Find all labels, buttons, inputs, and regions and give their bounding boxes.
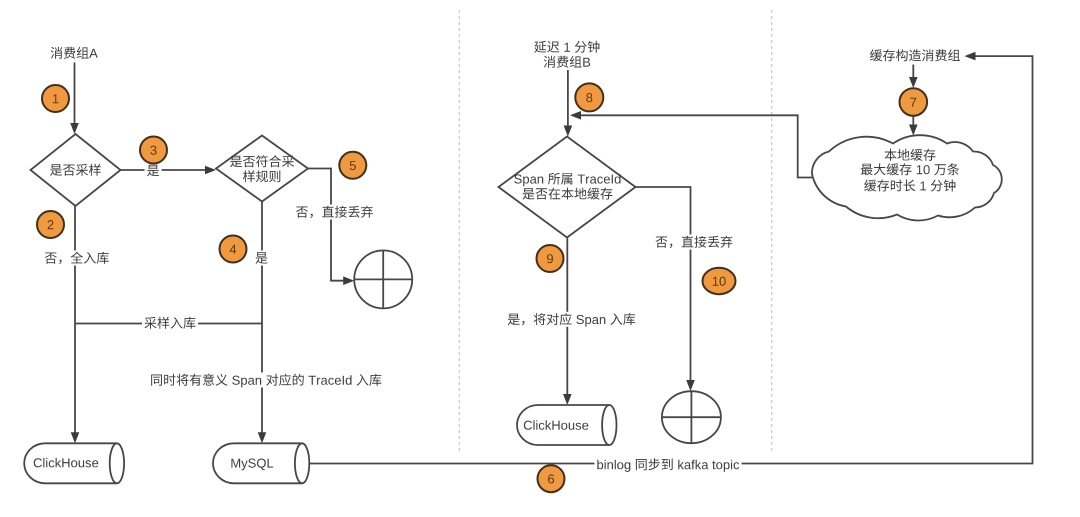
terminator discard circle-plus left — [354, 250, 412, 308]
wire 消费组A to 是否采样 — [70, 63, 79, 135]
database cylinder ClickHouse (middle) — [517, 405, 617, 445]
badge circle 8 — [575, 83, 603, 111]
label 延迟 1 分钟 / 消费组B — [534, 41, 599, 68]
badge circle 1 — [42, 85, 69, 112]
badge circle 10 — [703, 268, 736, 294]
label 是 (first branch) — [145, 163, 162, 178]
label 同时将有意义 Span 对应的 TraceId 入库 — [148, 373, 384, 388]
wire Span diamond to discard terminator (否 branch) — [636, 187, 695, 391]
label 是 (second branch) — [253, 251, 270, 266]
badge circle 9 — [537, 245, 564, 272]
wire Span diamond to ClickHouse (是 branch) — [563, 238, 572, 406]
wire cloud 本地缓存 to Span diamond input — [570, 111, 812, 178]
wire 消费组B to Span diamond — [564, 70, 573, 137]
label 否，直接丢弃 (left) — [294, 205, 376, 220]
wire junction 采样入库 horizontal — [75, 323, 262, 325]
wire 是否采样 to ClickHouse (否 branch) — [71, 206, 80, 443]
label 否，直接丢弃 (middle) — [653, 235, 735, 250]
database cylinder ClickHouse (left) — [24, 443, 124, 483]
badge circle 4 — [220, 236, 247, 263]
badge circle 2 — [37, 211, 64, 238]
badge circle 5 — [339, 152, 366, 179]
wire 是否符合采样规则 to discard terminator (否 branch) — [308, 169, 354, 286]
wire 是否符合采样规则 to MySQL (是 branch) — [258, 202, 267, 444]
label 否，全入库 — [42, 251, 111, 266]
dashed separator line left — [458, 10, 460, 452]
wire 是否采样 to 是否符合采样规则 (是 branch) — [121, 166, 217, 175]
badge circle 7 — [900, 88, 928, 116]
label 消费组A — [51, 47, 98, 59]
decision diamond 是否采样 — [31, 134, 121, 206]
label 是，将对应 Span 入库 — [505, 312, 638, 327]
label 缓存构造消费组 — [870, 49, 960, 61]
label 采样入库 — [142, 316, 198, 331]
wire badge 7 to cloud 本地缓存 — [909, 116, 918, 136]
label binlog 同步到 kafka topic — [594, 457, 741, 472]
decision diamond Span 所属 TraceId 是否在本地缓存 — [499, 137, 636, 238]
badge circle 3 — [140, 137, 167, 164]
decision diamond 是否符合采样规则 — [216, 136, 308, 202]
terminator discard circle-plus middle — [662, 391, 721, 443]
badge circle 6 — [538, 465, 565, 492]
database cylinder MySQL — [213, 443, 309, 483]
wire MySQL binlog to kafka topic to 缓存构造消费组 — [310, 52, 1033, 464]
wire 缓存构造消费组 to badge 7 — [909, 65, 918, 89]
cloud 本地缓存 — [812, 135, 1002, 220]
dashed separator line right — [771, 10, 773, 452]
